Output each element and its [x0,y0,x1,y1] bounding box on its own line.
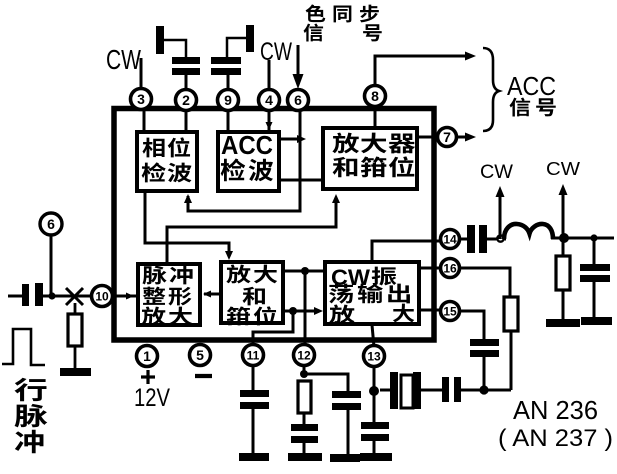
wire amp-clamp2 to CW oscillator upper [283,270,326,273]
svg-text:CW: CW [480,162,513,183]
svg-text:( AN 237 ): ( AN 237 ) [498,425,613,452]
wire CW oscillator to pin15 [419,309,441,312]
label minus pin5 [195,374,212,378]
resistor R10 [68,303,82,369]
ground capacitor C12a [288,453,322,461]
wire CW oscillator bottom to pin13 [372,325,374,347]
pin 7 [438,128,457,147]
wire CW oscillator to pin16 [419,267,441,270]
ground capacitor C11 [239,453,269,461]
wire pin14 to capacitor [459,238,468,241]
resistor R2 [556,238,570,320]
wire pin11 tap step [253,311,293,346]
block amplifier and clamp 放大和箝位 [221,262,283,325]
wire pulse-shaper top to amplifier-clamp bottom [167,194,340,263]
svg-text:12: 12 [297,348,311,362]
capacitor C10 input coupling [22,283,43,306]
svg-text:12V: 12V [134,384,170,412]
svg-text:2: 2 [182,92,190,108]
node junction pin11 tap [289,307,297,315]
svg-text:15: 15 [443,304,457,318]
label +12V supply pin1 [134,370,170,412]
wire amp-clamp2 to CW oscillator lower [283,307,323,315]
ground capacitor C12b [330,454,360,462]
svg-text:6: 6 [47,216,55,232]
crystal X1 resonator [380,372,436,409]
wire capacitor to CW node [487,238,506,241]
capacitor C16 [470,339,499,390]
svg-text:5: 5 [196,347,204,363]
wire pin8 to ACC signal out [375,52,476,88]
capacitor C13 [361,391,389,454]
pin 15 [441,302,460,321]
waveform sync pulse symbol [2,329,45,365]
node CW tap 2 [559,233,569,243]
pin 4 [259,90,280,111]
wire junction to pin12 [304,271,307,346]
pin 5 [190,345,211,366]
ground resistor R2 [546,319,580,327]
wire capacitor to pin10 [43,295,92,298]
label AN 236 [513,395,598,425]
cross X no-connection mark [66,288,83,305]
wire circled6 to input node [50,235,53,296]
wire pin6 burst input to phase detector [184,110,300,211]
label burst signal 色同步信号 [304,4,382,41]
node CW tap 1 [497,235,503,241]
label ( AN 237 ) [498,425,613,452]
node pin12 junction [300,370,308,378]
wire arrow CW out 2 [559,184,568,238]
svg-text:16: 16 [443,261,457,275]
capacitor C12a [291,424,318,454]
node junction pin12 tap [301,267,309,275]
trimmer capacitor CT1 on pin2 [156,26,200,90]
wire CW oscillator top to pin14 [372,241,440,262]
svg-text:ACC: ACC [507,71,556,101]
svg-text:14: 14 [443,232,457,246]
wire tap2 to tap3 [551,237,594,240]
pin 1 [137,346,158,367]
wire pin4 CW stub [268,60,271,89]
svg-text:AN 236: AN 236 [513,395,598,425]
label 行脉冲 horizontal sync pulse [15,378,48,454]
wire pin3 to phase detector [143,110,146,131]
wire pin12 branch to C12b [304,374,348,392]
pin 9 [218,90,239,111]
trimmer capacitor CT2 on pin9 [211,25,254,90]
svg-text:13: 13 [367,349,381,363]
block amplifier and clamp 放大器和箝位 [323,128,417,189]
wire burst input arrow into pin6 [293,45,304,89]
block pulse shaping amplifier 脉冲整形放大 [138,264,200,325]
label ACC 信号 [507,71,556,116]
inductor L1 [504,224,553,239]
wire pin16 to resistor [459,268,510,298]
pin 11 [243,345,264,366]
annotation circled 6 waveform [40,213,62,235]
node pin13 junction [369,386,379,396]
label CW out 1 [480,162,513,183]
svg-text:11: 11 [247,348,260,362]
wire amplifier-clamp to pin7 [417,136,439,139]
svg-text:3: 3 [137,91,145,107]
wire pin4 to ACC detector [266,110,273,130]
capacitor C17 series [436,377,484,402]
label CW pin3 [106,44,141,75]
node input junction [48,292,55,299]
pin 10 [92,286,113,307]
wire pin8 to amplifier-clamp block [374,110,377,127]
wire ACC detector output arrow to node [281,135,306,143]
svg-text:CW: CW [106,44,141,75]
svg-text:ACC: ACC [221,130,273,160]
svg-text:10: 10 [95,289,109,303]
svg-text:4: 4 [265,92,273,108]
pin 16 [441,259,460,278]
IC U1 AN236 body outline [114,109,434,341]
wire pin11 down [252,365,255,391]
svg-text:8: 8 [371,88,379,104]
resistor R1 [298,381,311,425]
pin 12 [294,345,315,366]
svg-text:1: 1 [143,348,151,364]
ground resistor R10 [60,368,91,376]
capacitor C14 coupling [467,225,487,253]
wire pin9 to ACC detector [227,110,230,131]
capacitor C12b [332,391,361,455]
block phase detector 相位检波 [137,132,197,191]
wire input left end [8,295,23,298]
wire pin7 to ACC signal out [456,133,476,142]
pin 13 [364,346,385,367]
wire pin10 into pulse shaper [113,293,136,300]
brace ACC signal bracket [483,48,499,131]
wire arrow CW out 1 [496,186,505,239]
wire tap3 right end [594,237,614,240]
wire pin12 down [303,365,306,374]
wire phase detector output to amp-clamp2 [145,192,233,260]
wire pin13 down [373,366,376,390]
pin 2 [176,90,197,111]
svg-text:9: 9 [224,92,232,108]
pin 8 [365,86,386,107]
label CW out 2 [546,159,580,179]
wire pin15 to capacitor [459,311,484,340]
resistor R3 [504,297,518,390]
svg-text:CW: CW [260,38,292,66]
ground capacitor C13 [360,453,392,461]
node resonator junction [479,385,511,394]
block CW oscillator output amplifier CW振荡输出放大 [325,262,419,324]
block ACC detector ACC检波 [218,130,279,191]
capacitor C15 [580,238,610,318]
wire ACC detector to amplifier-clamp [281,179,322,182]
capacitor C11 [240,390,269,454]
pin 6 [288,90,309,111]
ground capacitor C15 [581,317,612,325]
pin 14 [441,230,460,249]
wire amp-clamp2 to pulse shaper arrow [203,291,221,298]
pin 3 [131,89,152,110]
label CW pin4 [260,38,292,66]
node tap 3 [590,234,597,241]
svg-text:CW: CW [546,159,580,179]
svg-text:7: 7 [443,129,451,145]
svg-text:6: 6 [294,92,302,108]
wire pin3 CW stub [140,58,143,88]
wire pin2 to phase detector [185,110,188,131]
